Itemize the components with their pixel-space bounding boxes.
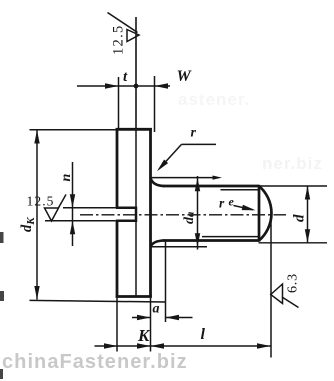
thread runout line (258, 185, 261, 242)
leader r (182, 143, 217, 145)
svg-text:d: d (292, 214, 308, 222)
dimension d_a (197, 176, 199, 250)
svg-text:a: a (153, 302, 160, 317)
svg-text:dK: dK (19, 217, 37, 232)
dimension d (259, 185, 328, 187)
scan edge marks (0, 232, 4, 243)
d_a flange line bottom (151, 246, 208, 248)
dome end (259, 186, 271, 241)
svg-text:e: e (229, 195, 235, 209)
thread root top (221, 189, 260, 191)
K extension left (116, 298, 118, 352)
finish symbol 6.3 (271, 284, 283, 304)
head outline (116, 128, 152, 298)
shaft crest bottom (163, 239, 260, 242)
a extension line (165, 242, 167, 323)
dimension a (132, 317, 151, 319)
notch extension lines (63, 207, 116, 209)
thread root bottom (202, 236, 259, 238)
K/l extension middle (150, 298, 152, 352)
dimension t W line (77, 85, 170, 87)
d_K extension top (30, 129, 118, 131)
l extension right (270, 212, 272, 358)
finish symbol 12.5 top (108, 13, 138, 33)
svg-text:astener.: astener. (178, 90, 250, 109)
fillet bottom (151, 241, 165, 248)
dimension d_K (36, 130, 38, 300)
slot notch (116, 207, 136, 222)
d_K extension bottom (30, 300, 166, 302)
finish symbol 12.5 slot (59, 195, 67, 208)
svg-text:da: da (182, 212, 197, 224)
svg-text:r: r (191, 126, 197, 141)
dimension n (72, 162, 74, 246)
extension line t left (118, 77, 120, 129)
svg-text:W: W (177, 68, 193, 85)
svg-text:n: n (59, 174, 74, 182)
extension line slot-bottom / finish stem (135, 17, 137, 129)
svg-text:t: t (123, 69, 128, 85)
svg-text:12.5: 12.5 (27, 194, 55, 209)
svg-text:6.3: 6.3 (286, 273, 301, 293)
svg-text:12.5: 12.5 (111, 24, 127, 55)
svg-text:l: l (201, 326, 206, 343)
slot bottom line (135, 129, 137, 296)
center line (80, 214, 286, 216)
svg-text:K: K (137, 326, 151, 345)
dimension K l line (95, 345, 271, 347)
d_a flange line top (151, 177, 217, 179)
shaft crest top (163, 185, 260, 188)
svg-text:r: r (219, 196, 225, 211)
leader r e (234, 206, 254, 210)
svg-text:chinaFastener.biz: chinaFastener.biz (2, 351, 188, 373)
svg-text:ner.biz: ner.biz (262, 154, 323, 173)
fillet top (151, 178, 165, 186)
extension line W right (154, 76, 156, 132)
